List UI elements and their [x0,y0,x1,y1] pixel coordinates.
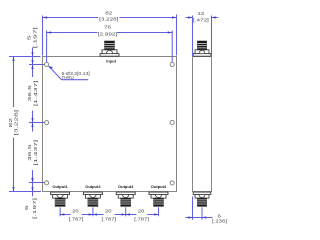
svg-text:20: 20 [138,209,145,214]
svg-text:Output1: Output1 [52,184,68,189]
svg-text:[.236]: [.236] [212,219,227,224]
dim 20 bottom 3-4: extension line [158,207,160,216]
dim 36.5 upper-left: dimension line [32,65,34,78]
dim 82 top: dimension line [43,17,99,19]
svg-text:36.5: 36.5 [28,144,32,161]
extension line hole row top [29,64,44,66]
svg-text:20: 20 [72,209,79,214]
dim 82 top: extension lines [42,16,44,56]
side view body outline [193,57,212,192]
svg-text:5: 5 [27,35,31,40]
svg-text:[.787]: [.787] [101,217,116,222]
svg-text:[1.437]: [1.437] [34,80,38,106]
side view input connector (top) [193,41,211,56]
dim 5 top-left: line and outside arrows [32,48,34,65]
svg-text:5: 5 [25,205,29,210]
svg-text:12: 12 [197,12,204,17]
svg-text:[3.228]: [3.228] [14,110,18,136]
dim 20 bottom 1-2: extension lines [59,207,61,216]
dim 20 bottom 1-2: dimension line [60,214,71,216]
mounting hole bottom-right [170,181,174,185]
dim 5 bottom-left: line and outside arrows [32,177,34,197]
mounting hole top-right [170,62,174,66]
dim 20 bottom 2-3: dimension line [93,214,104,216]
svg-text:Output3: Output3 [118,184,134,189]
side view output connector (bottom) [193,192,211,206]
svg-text:76: 76 [104,25,111,30]
svg-text:[3.228]: [3.228] [99,17,119,22]
output connector 2 [83,192,102,206]
svg-text:[.197]: [.197] [33,27,37,48]
svg-text:[2.992]: [2.992] [98,33,118,38]
extension line hole row mid [29,122,44,124]
output connector 1 (front view, bottom) [51,192,70,206]
input connector J1 (front view, top) [100,41,119,56]
dim 82 left: extension lines [9,56,41,58]
output connector 3 [116,192,135,206]
dim 6 side bottom: extension lines [192,197,194,220]
dim 20 bottom 3-4: dimension line [126,214,137,216]
front view body outline [43,57,177,192]
svg-text:Output2: Output2 [85,184,101,189]
svg-text:[.787]: [.787] [134,217,149,222]
mounting hole mid-left [45,121,49,125]
dim 76 top: dimension line [47,32,98,34]
mounting hole mid-right [170,120,174,124]
hole callout leader [49,66,62,80]
svg-text:[1.437]: [1.437] [34,140,38,166]
dim 12 side: dimension line with outside arrows [186,17,193,19]
svg-text:Input: Input [106,59,116,64]
dim 6 side bottom: dimension line with outside arrows [185,217,202,219]
svg-text:Output4: Output4 [151,184,167,189]
svg-text:36.5: 36.5 [28,85,32,102]
mounting hole top-left [45,62,49,66]
dim 20 bottom 2-3: extension line [125,207,127,216]
output connector 4 [149,192,168,206]
dim 12 side: extension lines [192,16,194,57]
svg-text:[.787]: [.787] [69,217,84,222]
svg-text:[.197]: [.197] [33,198,37,219]
mounting hole bottom-left [45,181,49,185]
svg-text:82: 82 [105,11,112,16]
svg-text:82: 82 [9,118,13,128]
svg-text:[.472]: [.472] [193,18,209,23]
dim 82 left: dimension line [13,57,15,108]
svg-text:THRU: THRU [62,75,74,80]
extension line hole row bottom [29,182,44,184]
dim 76 top: extension lines [46,31,48,63]
dim 36.5 lower-left: dimension line [32,123,34,132]
svg-text:20: 20 [105,209,112,214]
